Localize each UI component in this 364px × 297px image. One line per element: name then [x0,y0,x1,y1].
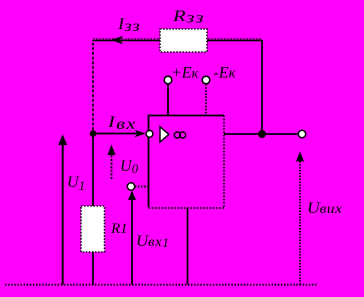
voltage arrow Uvx1 [128,191,136,285]
noninverting input wire (dotted) [135,186,149,188]
noninverting input terminal [127,183,134,190]
-Ek terminal [202,76,210,84]
output terminal [298,130,305,137]
current arrow Izz [111,36,123,44]
feedback wire vertical right [261,40,263,134]
op-amp U1 body (top+left solid) [149,116,225,208]
voltage arrow Uvih (dotted) [296,152,304,285]
resistor R1 [81,206,105,252]
inverting input terminal [146,130,153,137]
voltage arrow U0 (dashed) [108,145,116,180]
junction node A [90,130,97,137]
svg-text:Uвх1: Uвх1 [136,233,169,250]
svg-text:U0: U0 [120,158,139,176]
svg-text:-Eк: -Eк [214,65,237,82]
svg-text:Uвих: Uвих [307,200,343,217]
+Ek supply wire [167,84,169,116]
voltage arrow U1 [58,135,67,285]
svg-text:Iзз: Iзз [117,16,140,35]
op-amp infinity symbol [174,132,185,138]
junction node output [258,130,266,138]
svg-text:Rзз: Rзз [172,8,204,27]
feedback wire (dashed vertical) [92,40,94,130]
top feedback wire (solid with dotted overlay) [93,39,262,41]
+Ek terminal [164,76,172,84]
op-amp common pin wire [187,208,189,285]
svg-text:+Eк: +Eк [171,65,199,82]
resistor Rzz [160,29,207,52]
svg-text:R1: R1 [110,221,128,237]
input wire with current arrow Ivx [93,130,146,137]
wire node A to ground through R1 [92,134,94,285]
svg-text:Iвх: Iвх [107,114,136,133]
op-amp body right+bottom (dotted) [149,116,225,209]
ground rail (dotted) [5,284,318,286]
output wire [224,133,299,135]
op-amp gain triangle [160,127,169,142]
-Ek supply wire (dotted) [205,84,207,116]
